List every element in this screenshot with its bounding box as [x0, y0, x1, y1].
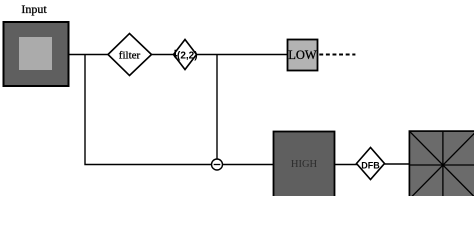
svg-text:HIGH: HIGH	[291, 159, 318, 170]
svg-text:(2,2): (2,2)	[177, 50, 198, 61]
svg-text:LOW: LOW	[288, 48, 317, 62]
input image block	[4, 22, 69, 86]
input inner square	[19, 37, 52, 70]
svg-text:Input: Input	[21, 2, 47, 16]
svg-text:DFB: DFB	[361, 160, 380, 170]
svg-text:filter: filter	[119, 50, 141, 62]
wire subtractor to HIGH box	[223, 164, 274, 166]
HIGH box	[274, 132, 335, 200]
filter diamond	[108, 34, 152, 76]
dashed output wire from LOW	[319, 54, 355, 56]
downsampler diamond (2,2)	[173, 40, 198, 70]
wire filter to downsampler	[152, 54, 175, 56]
LOW box	[288, 40, 318, 71]
wire input to filter	[69, 54, 109, 56]
DFB subband box (8-wedge wheel, clipped by image edge)	[409, 131, 474, 199]
wire input branch down-left	[85, 55, 212, 165]
wire junction down from node	[216, 55, 218, 160]
subtractor node (minus circle)	[212, 159, 223, 170]
wire HIGH to DFB	[335, 164, 357, 166]
DFB diamond	[357, 148, 385, 180]
wire downsampler to LOW box	[197, 54, 288, 56]
wire DFB to subband box	[385, 163, 411, 165]
